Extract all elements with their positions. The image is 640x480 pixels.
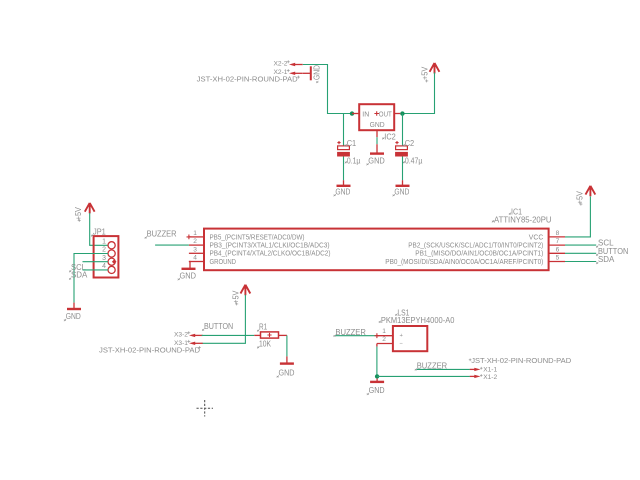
voltage regulator IC2 [352,104,400,137]
wire C1 to ground [343,157,345,181]
junction at regulator IN [350,111,354,115]
label JST-XH-02-PIN-ROUND-PAD (X3) [99,345,201,354]
svg-text:PB4_(PCINT4/XTAL2/CLKO/OC1B/AD: PB4_(PCINT4/XTAL2/CLKO/OC1B/ADC2) [210,251,331,258]
wire VCC pin 8 to +5V [565,196,590,237]
label ATTINY85-20PU [492,215,552,224]
wire +5V to regulator OUT [402,73,434,114]
wire BUZZER to X1-1 [417,368,470,370]
net label SDA [596,255,615,264]
ground below R1 [277,356,295,377]
wire JP1 pin 2 to ground [74,254,108,303]
label PKM13EPYH4000-A0 [379,316,455,325]
svg-text:8: 8 [556,230,560,237]
label IC2 [382,132,396,141]
wire SDA from pin 5 [565,261,596,263]
svg-text:2: 2 [102,247,106,254]
svg-text:GROUND: GROUND [210,259,237,266]
net label SCL (JP1) [69,263,86,272]
svg-text:+5V: +5V [576,191,585,205]
svg-text:PB5_(PCINT5/RESET/ADC0/DW): PB5_(PCINT5/RESET/ADC0/DW) [210,234,305,241]
wire LS1 pin 2 to ground [376,347,378,377]
net label BUZZER at pin 1 [145,230,192,240]
wire GND net to X1-2 [377,375,470,377]
svg-text:ATTINY85-20PU: ATTINY85-20PU [494,215,552,224]
junction at regulator OUT [400,111,404,115]
svg-text:GND: GND [180,270,197,280]
capacitor C2 [395,139,423,165]
label JST-XH-02-PIN-ROUND-PAD (X1) [469,356,572,365]
label IC1 [509,208,523,217]
wire JP1 pin 3 SCL [83,261,109,263]
svg-text:GND: GND [311,65,321,80]
wire +5V to X3-1 [202,295,246,344]
svg-text:VCC: VCC [529,234,544,241]
ground below C2 [393,180,410,196]
svg-text:PB3_(PCINT3/XTAL1/CLKI/OC1B/AD: PB3_(PCINT3/XTAL1/CLKI/OC1B/ADC3) [210,243,330,250]
svg-text:0.1µ: 0.1µ [347,156,361,165]
ground below LS1 [367,379,385,396]
wire X2-2 to regulator IN [303,65,352,114]
sheet origin cross [197,400,214,417]
+5V supply arrow (JP1) [74,203,95,222]
wire +5V to JP1 pin 1 [90,213,108,245]
connector X1 pin X1-1 [470,366,498,373]
svg-text:C2: C2 [405,139,415,148]
svg-text:7: 7 [556,238,560,245]
wire at pin 2 PB3 [155,244,189,246]
header JP1 [94,236,119,277]
ground below regulator [367,144,385,165]
svg-text:GND: GND [279,368,295,378]
resistor R1 [254,323,287,349]
svg-text:3: 3 [102,255,106,262]
svg-text:1: 1 [193,230,197,237]
label LS1 [395,309,410,318]
net label BUZZER (X1) [415,362,448,371]
svg-text:SDA: SDA [71,271,88,280]
svg-text:GND: GND [335,186,350,196]
net label SCL [596,239,614,248]
svg-text:IC2: IC2 [384,132,396,141]
svg-text:2: 2 [193,238,197,245]
svg-text:4: 4 [102,263,106,270]
wire regulator GND to ground [376,137,378,144]
svg-text:R1: R1 [259,323,268,332]
svg-text:3: 3 [193,246,197,253]
+5V supply arrow (button) [231,285,250,306]
svg-text:X3-2: X3-2 [174,331,188,338]
wire C2 to ground [402,157,404,181]
svg-text:X1-2: X1-2 [483,374,497,381]
svg-text:X1-1: X1-1 [483,366,497,373]
wire BUTTON to R1 [202,334,255,336]
svg-text:PKM13EPYH4000-A0: PKM13EPYH4000-A0 [381,316,455,325]
wire BUTTON from pin 6 [565,252,596,254]
svg-text:PB2_(SCK/USCK/SCL/ADC1/T0/INT0: PB2_(SCK/USCK/SCL/ADC1/T0/INT0/PCINT2) [408,243,543,250]
wire R1 to ground [286,335,288,356]
svg-text:X2-2: X2-2 [274,61,288,68]
svg-text:BUZZER: BUZZER [147,230,177,239]
wire to capacitor C1 [343,114,345,146]
connector X2 pin X2-2 (power in) [274,60,303,67]
ground at pin 4 GROUND [178,262,196,281]
net label SDA (JP1) [69,271,88,280]
svg-text:BUTTON: BUTTON [204,322,233,331]
svg-text:JST-XH-02-PIN-ROUND-PAD: JST-XH-02-PIN-ROUND-PAD [99,345,201,354]
net label BUZZER (LS1) [334,328,367,337]
wire BUZZER to LS1 pin 1 [335,333,379,338]
label JST-XH-02-PIN-ROUND-PAD (X2) [197,75,300,84]
svg-text:OUT: OUT [379,111,393,118]
svg-text:GND: GND [368,155,385,165]
svg-text:2: 2 [382,336,386,343]
svg-text:SDA: SDA [598,255,615,264]
connector X3 pin X3-1 [174,340,203,347]
capacitor C1 [337,139,361,165]
svg-text:JST-XH-02-PIN-ROUND-PAD: JST-XH-02-PIN-ROUND-PAD [471,356,572,365]
net label BUTTON (X3) [202,322,233,331]
svg-text:GND: GND [369,385,385,395]
svg-text:1: 1 [382,328,386,335]
svg-text:GND: GND [370,122,385,129]
buzzer LS1 [377,326,427,351]
svg-text:JP1: JP1 [93,227,106,236]
ground below C1 [334,180,351,196]
svg-text:+5V: +5V [231,290,240,304]
svg-text:4: 4 [193,255,197,262]
junction GND net [375,374,379,378]
connector X3 pin X3-2 [174,331,203,338]
wire SCL from pin 7 [565,244,596,246]
svg-text:IN: IN [362,111,369,118]
ground below JP1 [64,303,81,322]
ground at X2-1 (rotated) [303,65,322,83]
svg-text:GND: GND [66,311,81,321]
wire OUT junction to capacitor C2 [402,114,404,146]
net label BUTTON [596,247,628,256]
svg-text:5: 5 [556,255,560,262]
+5V supply arrow (top) [420,63,439,82]
IC IC1 ATtiny85-20PU body [189,229,565,271]
svg-text:+5V: +5V [74,207,83,221]
connector X2 pin X2-1 [274,69,303,76]
svg-text:1: 1 [102,238,106,245]
svg-text:GND: GND [394,186,409,196]
connector X1 pin X1-2 [470,374,498,381]
svg-text:JST-XH-02-PIN-ROUND-PAD: JST-XH-02-PIN-ROUND-PAD [197,75,299,84]
wire JP1 pin 4 SDA [83,269,109,271]
svg-text:6: 6 [556,246,560,253]
svg-text:10K: 10K [259,339,272,348]
label JP1 [91,227,106,236]
+5V supply arrow (VCC) [576,186,596,206]
svg-text:PB0_(MOSI/DI/SDA/AIN0/OC0A/OC1: PB0_(MOSI/DI/SDA/AIN0/OC0A/OC1A/AREF/PCI… [385,259,543,266]
svg-text:C1: C1 [347,139,357,148]
svg-text:PB1_(MISO/DO/AIN1/OC0B/OC1A/PC: PB1_(MISO/DO/AIN1/OC0B/OC1A/PCINT1) [415,251,543,258]
svg-text:0.47µ: 0.47µ [405,156,423,165]
svg-text:+5V: +5V [420,66,429,80]
